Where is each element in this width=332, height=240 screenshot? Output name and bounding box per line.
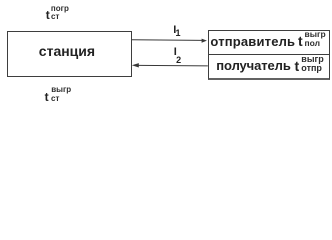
divider line between отправитель and получатель — [208, 54, 330, 55]
label станция — [39, 44, 95, 58]
label получатель — [216, 59, 290, 72]
block: станция box — [7, 31, 132, 77]
arrowhead I1 pointing right — [202, 39, 207, 43]
label I1 — [173, 25, 176, 36]
subscript пол (row 1) — [305, 39, 321, 48]
arrowhead I2 pointing left — [132, 63, 139, 67]
symbol t (row 1) — [298, 34, 303, 48]
label t (top left) — [46, 9, 50, 21]
label отправитель — [210, 35, 295, 48]
subscript ст (bottom left) — [51, 95, 59, 103]
superscript выгр (row 1) — [305, 30, 326, 39]
superscript выгр (row 2) — [301, 55, 323, 64]
subscript ст (top left) — [51, 13, 59, 21]
arrows svg — [0, 0, 332, 108]
label I2 — [174, 47, 177, 58]
symbol t (row 2) — [295, 59, 300, 73]
superscript погр (top left) — [51, 5, 69, 13]
superscript выгр (bottom left) — [51, 86, 71, 94]
block: right outer box — [208, 30, 330, 80]
wire I1 (station to sender) — [132, 39, 203, 42]
wire I2 (receiver to station) — [139, 64, 208, 67]
subscript отпр (row 2) — [301, 64, 322, 73]
label t (bottom left) — [45, 91, 49, 103]
